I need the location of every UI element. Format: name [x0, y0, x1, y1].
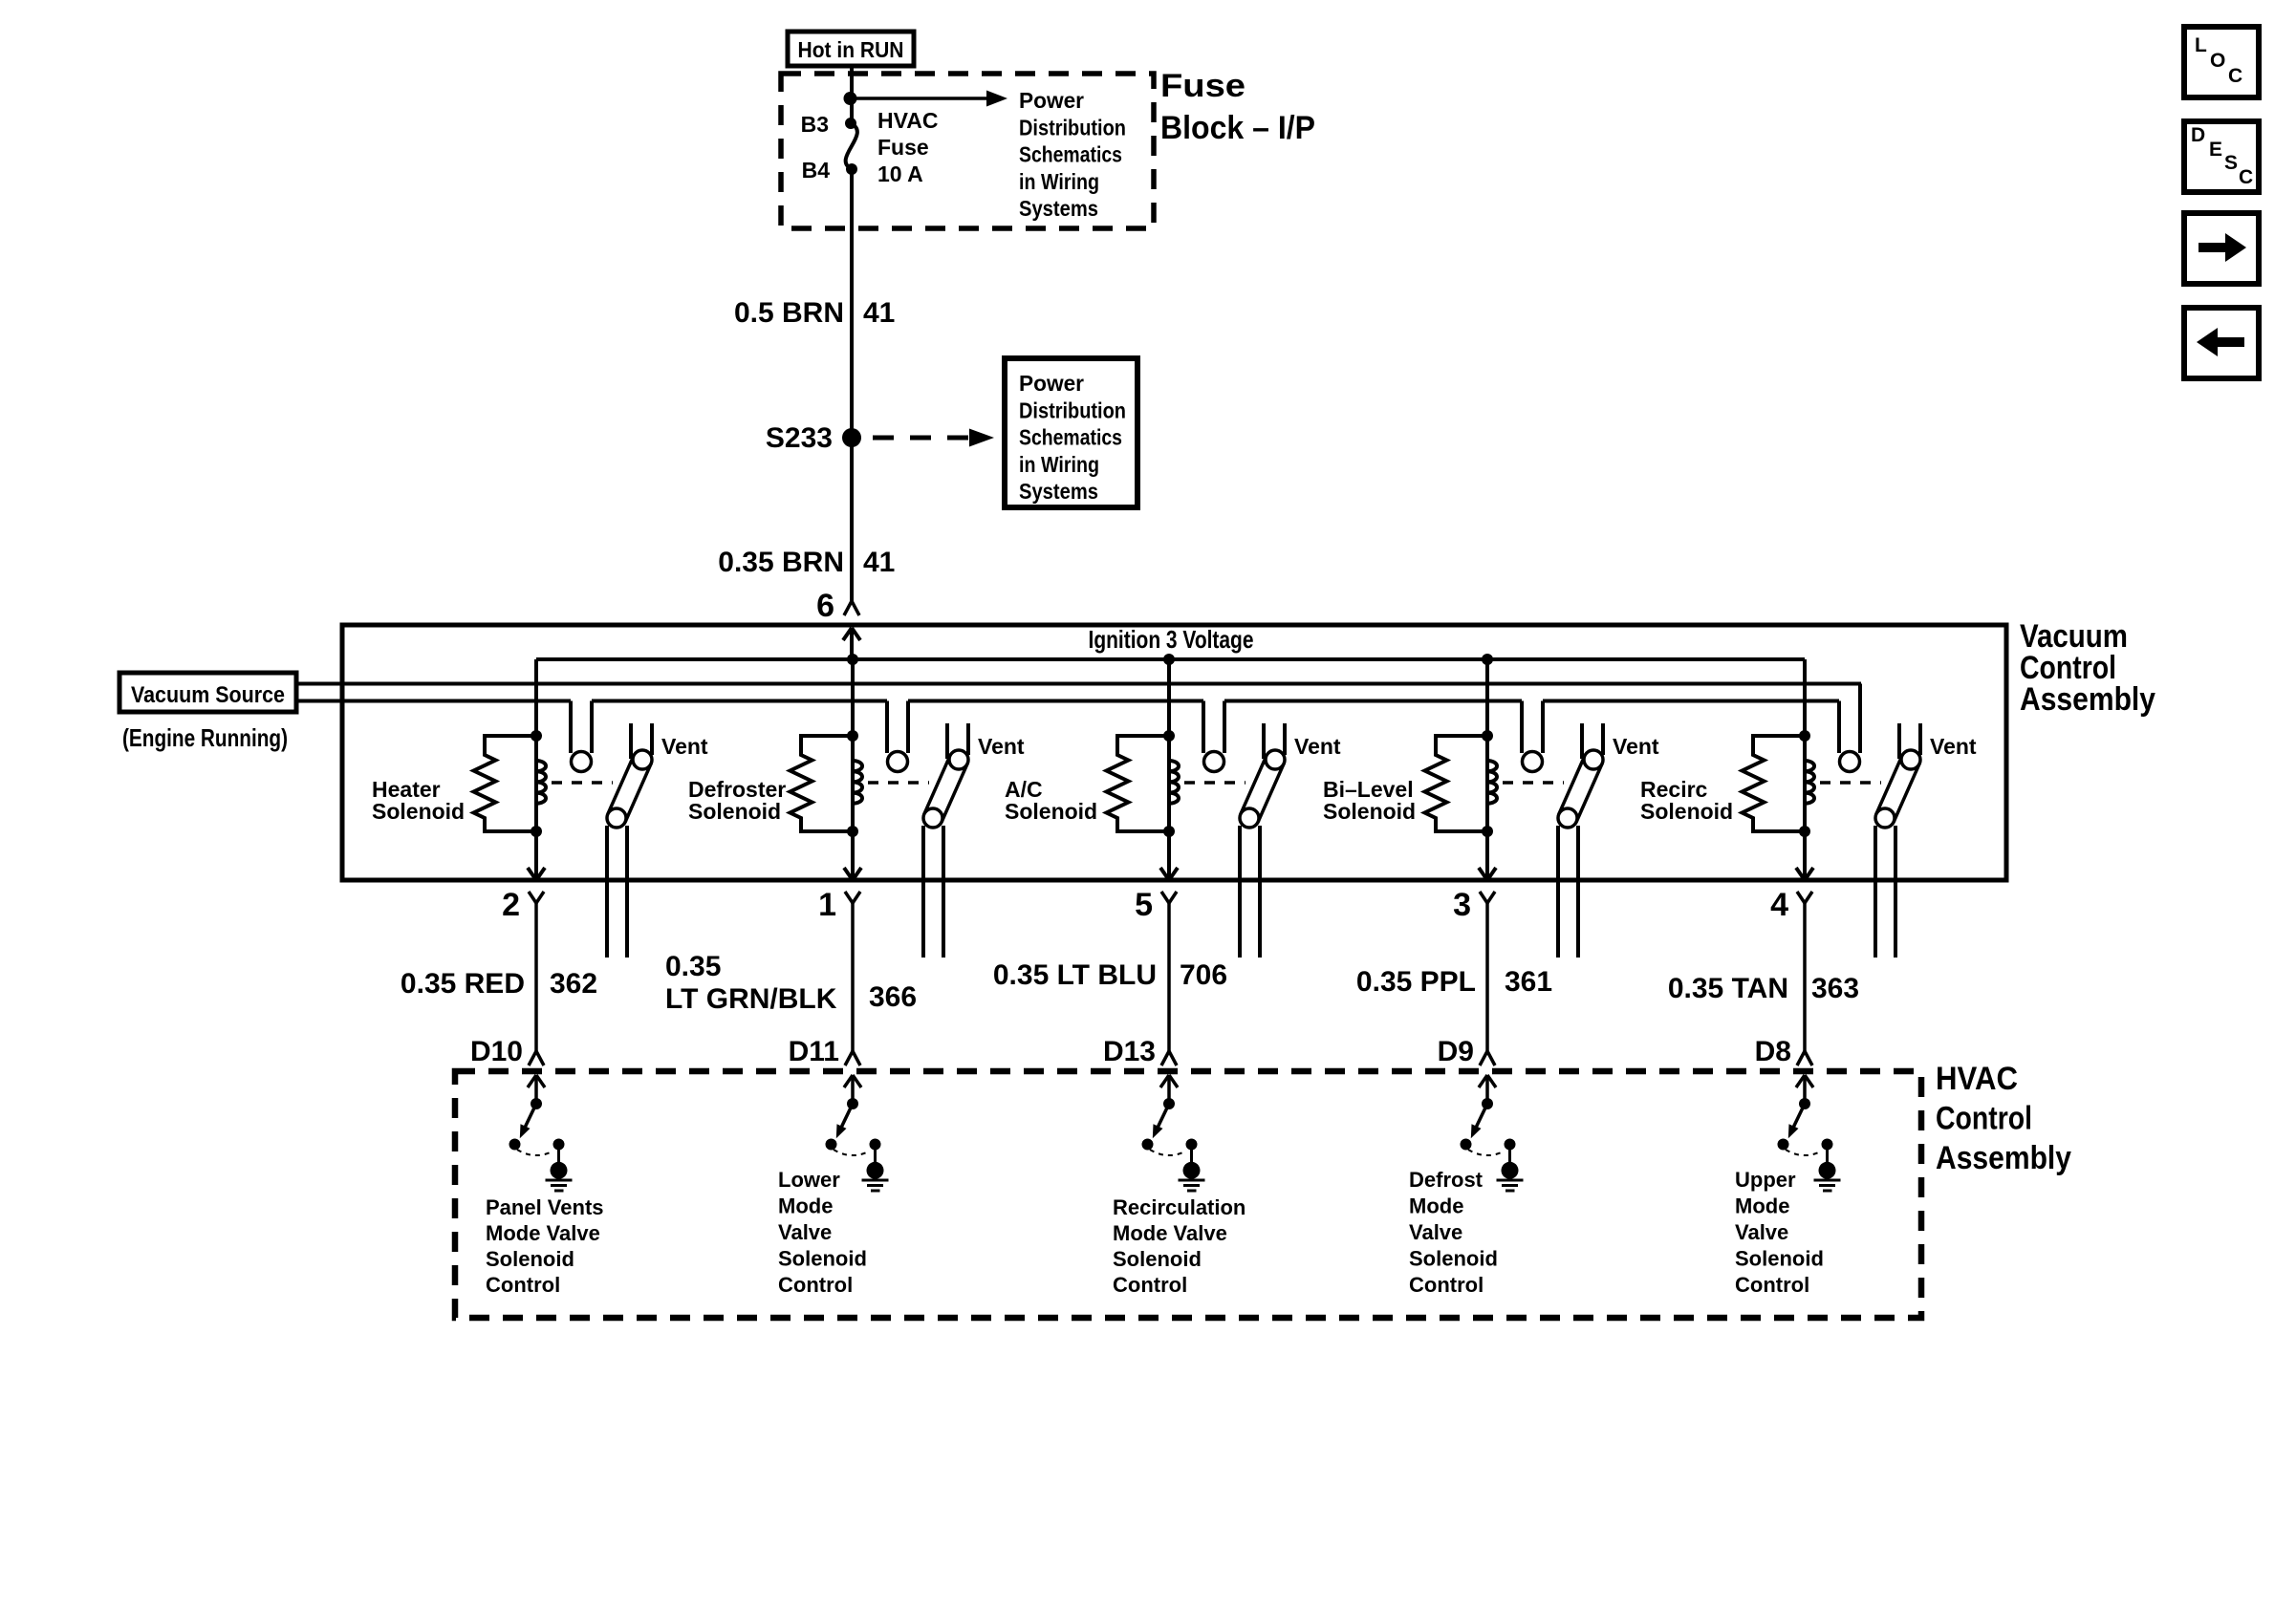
switch D9 dashed travel arc: [1468, 1150, 1504, 1155]
svg-text:Control: Control: [1735, 1273, 1809, 1297]
vacuum supply line lower comb: [296, 699, 571, 703]
svg-text:0.35 LT BLU: 0.35 LT BLU: [993, 959, 1157, 991]
Heater vent tube: [629, 723, 633, 759]
svg-text:Assembly: Assembly: [2020, 681, 2155, 718]
wire pin 3 to D9: [1485, 903, 1489, 1051]
svg-text:706: 706: [1180, 959, 1227, 991]
wire pin 1 to D11: [851, 903, 855, 1051]
wire pin 5 to D13: [1167, 903, 1171, 1051]
Bi–Level valve lower port: [1558, 808, 1577, 828]
Recirc solenoid bottom junction: [1799, 826, 1810, 837]
solenoid unit Heater Solenoid: feed wire: [534, 659, 538, 831]
svg-text:5: 5: [1135, 887, 1153, 923]
Defroster solenoid coil: [853, 736, 862, 831]
A/C vacuum port tube: [1202, 701, 1205, 754]
Bi–Level vent tube: [1580, 723, 1584, 759]
splice S233: [842, 428, 861, 447]
svg-text:HVAC: HVAC: [877, 108, 938, 133]
A/C valve lower port: [1240, 808, 1259, 828]
switch D13 ground ball: [1183, 1162, 1201, 1179]
ground symbol D11: [862, 1179, 889, 1182]
svg-text:E: E: [2209, 139, 2222, 161]
Defroster vacuum port tube: [885, 701, 889, 754]
svg-text:Mode: Mode: [1409, 1194, 1463, 1218]
wire from Hot in RUN to fuse block: [850, 66, 854, 98]
Heater solenoid resistor branch: [474, 736, 537, 831]
ground symbol D9: [1497, 1179, 1524, 1182]
switch D9 pivot: [1482, 1098, 1493, 1109]
A/C valve pivot port: [1266, 750, 1285, 769]
power label box "Hot in RUN": [788, 32, 914, 66]
svg-text:366: 366: [869, 981, 917, 1013]
svg-text:10 A: 10 A: [877, 161, 923, 186]
vacuum supply line upper: [296, 682, 1861, 686]
svg-text:Hot in RUN: Hot in RUN: [798, 37, 904, 62]
solenoid unit Recirc Solenoid: feed wire: [1803, 659, 1807, 831]
LOC nav box: [2184, 27, 2259, 97]
Bi–Level valve pivot port: [1584, 750, 1603, 769]
pin 5 connector: [1161, 892, 1169, 903]
ignition 3 voltage rail: [536, 657, 1805, 661]
switch D11 left contact: [826, 1139, 837, 1151]
switch D11 entry arrow: [851, 1075, 855, 1103]
svg-text:Defrost: Defrost: [1409, 1168, 1484, 1192]
Bi–Level solenoid top junction: [1482, 730, 1493, 742]
Heater valve lever: [608, 756, 651, 822]
svg-text:Vent: Vent: [1930, 734, 1977, 759]
Heater solenoid top junction: [531, 730, 542, 742]
switch D10 left contact: [509, 1139, 521, 1151]
svg-text:Control: Control: [1936, 1101, 2032, 1137]
junction dot rail/ac: [1163, 654, 1175, 665]
Recirc solenoid top junction: [1799, 730, 1810, 742]
next page nav box: [2184, 213, 2259, 284]
svg-text:Solenoid: Solenoid: [1113, 1247, 1202, 1271]
wire pin 4 to D8: [1803, 903, 1807, 1051]
svg-text:6: 6: [816, 588, 834, 624]
switch D9 lever: [1477, 1104, 1488, 1127]
svg-text:Mode: Mode: [778, 1194, 833, 1218]
Bi–Level solenoid coil: [1487, 736, 1497, 831]
Bi–Level output vacuum tube: [1556, 826, 1560, 958]
A/C vacuum port: [1204, 752, 1224, 772]
Defroster solenoid top junction: [847, 730, 858, 742]
ground symbol D10: [546, 1179, 573, 1182]
svg-text:O: O: [2210, 50, 2225, 72]
svg-text:362: 362: [550, 968, 597, 1000]
svg-text:Valve: Valve: [1735, 1220, 1788, 1244]
svg-text:0.35 BRN: 0.35 BRN: [718, 547, 844, 578]
svg-text:41: 41: [863, 547, 895, 578]
Bi–Level vacuum port: [1523, 752, 1543, 772]
switch D10 dashed travel arc: [517, 1150, 552, 1155]
switch D9 left contact: [1461, 1139, 1472, 1151]
pin 1 connector: [845, 892, 853, 903]
pin 3 connector: [1480, 892, 1487, 903]
switch D11 pivot: [847, 1098, 858, 1109]
Recirc actuator dashed link: [1820, 781, 1881, 785]
svg-text:Ignition 3 Voltage: Ignition 3 Voltage: [1089, 625, 1254, 654]
previous page nav box: [2184, 308, 2259, 378]
svg-text:Valve: Valve: [1409, 1220, 1462, 1244]
switch D10 ground ball: [551, 1162, 568, 1179]
svg-text:Vent: Vent: [978, 734, 1025, 759]
Recirc solenoid coil: [1805, 736, 1814, 831]
DESC nav box: [2184, 121, 2259, 192]
svg-text:Distribution: Distribution: [1019, 398, 1126, 422]
switch D9 right contact: [1505, 1139, 1516, 1151]
svg-text:B3: B3: [801, 112, 829, 137]
A/C solenoid coil: [1169, 736, 1179, 831]
switch D10 pivot: [531, 1098, 542, 1109]
switch D8 left contact: [1778, 1139, 1789, 1151]
svg-text:Systems: Systems: [1019, 479, 1098, 504]
svg-text:Mode Valve: Mode Valve: [1113, 1221, 1227, 1245]
Defroster valve lower port: [923, 808, 942, 828]
fuse block dashed box: [781, 74, 1154, 228]
svg-text:L: L: [2195, 34, 2207, 56]
svg-text:Upper: Upper: [1735, 1168, 1796, 1192]
svg-text:Fuse: Fuse: [1160, 68, 1245, 104]
svg-text:0.35 TAN: 0.35 TAN: [1668, 973, 1788, 1004]
solenoid unit Defroster Solenoid: feed wire: [851, 659, 855, 831]
A/C actuator dashed link: [1184, 781, 1245, 785]
switch D9 ground ball: [1502, 1162, 1519, 1179]
Defroster valve pivot port: [949, 750, 968, 769]
Bi–Level solenoid resistor branch: [1425, 736, 1488, 831]
svg-text:Vent: Vent: [1294, 734, 1341, 759]
Defroster output arrow to pin 1: [851, 831, 855, 880]
arrow to power distribution note (fuse block): [851, 97, 989, 100]
A/C vent tube: [1262, 723, 1266, 759]
svg-text:B4: B4: [802, 158, 831, 183]
Heater solenoid coil: [536, 736, 546, 831]
Recirc vacuum port: [1840, 752, 1860, 772]
Defroster solenoid resistor branch: [791, 736, 854, 831]
svg-text:Schematics: Schematics: [1019, 142, 1122, 167]
Heater output vacuum tube: [605, 826, 609, 958]
Recirc output vacuum tube: [1874, 826, 1877, 958]
Recirc vacuum port tube: [1837, 701, 1841, 754]
svg-text:HVAC: HVAC: [1936, 1061, 2018, 1097]
svg-text:Solenoid: Solenoid: [486, 1247, 574, 1271]
fuse terminal B4: [846, 163, 857, 175]
Bi–Level actuator dashed link: [1503, 781, 1564, 785]
Vacuum Control Assembly box: [342, 625, 2006, 880]
Bi–Level vacuum port tube: [1520, 701, 1524, 754]
svg-text:S: S: [2224, 152, 2238, 174]
switch D13 lever: [1159, 1104, 1170, 1127]
switch D11 lever: [842, 1104, 854, 1127]
Defroster vent tube: [945, 723, 949, 759]
svg-text:Solenoid: Solenoid: [778, 1247, 867, 1271]
svg-text:Systems: Systems: [1019, 196, 1098, 221]
svg-text:D: D: [2191, 124, 2205, 146]
svg-text:Schematics: Schematics: [1019, 425, 1122, 450]
Heater vacuum port tube: [569, 701, 573, 754]
A/C solenoid resistor branch: [1107, 736, 1170, 831]
svg-text:Control: Control: [486, 1273, 560, 1297]
svg-text:Vent: Vent: [1613, 734, 1659, 759]
Bi–Level solenoid bottom junction: [1482, 826, 1493, 837]
wire B4 down to S233: [850, 169, 854, 438]
Defroster valve lever: [924, 756, 967, 822]
A/C solenoid top junction: [1163, 730, 1175, 742]
svg-text:Vacuum Source: Vacuum Source: [131, 682, 285, 708]
HVAC Control Assembly dashed box: [455, 1071, 1921, 1318]
svg-text:S233: S233: [766, 422, 833, 454]
wire junction to B3: [850, 98, 854, 123]
junction dot at fuse input: [844, 92, 857, 105]
pin 4 connector: [1797, 892, 1805, 903]
svg-text:Recirculation: Recirculation: [1113, 1195, 1245, 1219]
Heater vacuum port: [572, 752, 592, 772]
Heater actuator dashed link: [552, 781, 613, 785]
Heater valve lower port: [607, 808, 626, 828]
svg-text:0.5 BRN: 0.5 BRN: [734, 297, 844, 329]
switch D10 lever: [526, 1104, 537, 1127]
A/C output vacuum tube: [1238, 826, 1242, 958]
junction dot rail/defroster: [847, 654, 858, 665]
svg-text:41: 41: [863, 297, 895, 329]
svg-text:D11: D11: [789, 1036, 839, 1067]
svg-text:D9: D9: [1438, 1036, 1474, 1067]
Recirc solenoid resistor branch: [1743, 736, 1806, 831]
switch D11 right contact: [870, 1139, 881, 1151]
A/C solenoid bottom junction: [1163, 826, 1175, 837]
svg-text:Block – I/P: Block – I/P: [1160, 110, 1315, 146]
Recirc valve lever: [1876, 756, 1919, 822]
svg-text:D10: D10: [470, 1036, 523, 1067]
A/C output arrow to pin 5: [1167, 831, 1171, 880]
svg-text:D8: D8: [1755, 1036, 1791, 1067]
svg-text:3: 3: [1453, 887, 1471, 923]
Recirc output arrow to pin 4: [1803, 831, 1807, 880]
Defroster output vacuum tube: [921, 826, 925, 958]
svg-text:Solenoid: Solenoid: [1005, 799, 1097, 824]
svg-text:Solenoid: Solenoid: [372, 799, 465, 824]
svg-text:Solenoid: Solenoid: [1409, 1247, 1498, 1271]
Recirc valve pivot port: [1901, 750, 1920, 769]
pin 2 connector: [529, 892, 536, 903]
svg-text:Distribution: Distribution: [1019, 115, 1126, 140]
svg-text:4: 4: [1770, 887, 1788, 923]
svg-text:363: 363: [1811, 973, 1859, 1004]
svg-text:Solenoid: Solenoid: [1735, 1247, 1824, 1271]
A/C valve lever: [1241, 756, 1284, 822]
svg-text:Fuse: Fuse: [877, 135, 929, 160]
switch D13 pivot: [1163, 1098, 1175, 1109]
svg-text:Mode: Mode: [1735, 1194, 1789, 1218]
svg-text:Control: Control: [1113, 1273, 1187, 1297]
svg-text:Lower: Lower: [778, 1168, 840, 1192]
wire pin 2 to D10: [534, 903, 538, 1051]
svg-text:Valve: Valve: [778, 1220, 832, 1244]
svg-text:Solenoid: Solenoid: [1323, 799, 1416, 824]
svg-text:1: 1: [818, 887, 836, 923]
svg-text:0.35 RED: 0.35 RED: [401, 968, 525, 1000]
fuse terminal B3: [845, 118, 856, 129]
switch D8 lever: [1794, 1104, 1806, 1127]
svg-text:361: 361: [1505, 966, 1552, 998]
svg-text:Power: Power: [1019, 371, 1084, 396]
switch D10 entry arrow: [534, 1075, 538, 1103]
svg-text:Solenoid: Solenoid: [688, 799, 781, 824]
Recirc vent tube: [1897, 723, 1901, 759]
dashed arrow from S233 to power distribution note: [873, 436, 971, 441]
svg-text:Control: Control: [778, 1273, 853, 1297]
pin 6 entry arrow inside assembly: [850, 628, 854, 659]
svg-text:0.35: 0.35: [665, 951, 721, 982]
switch D13 left contact: [1142, 1139, 1154, 1151]
ground symbol D13: [1179, 1179, 1205, 1182]
Heater solenoid bottom junction: [531, 826, 542, 837]
switch D10 right contact: [553, 1139, 565, 1151]
wire S233 down to vacuum control assembly pin 6: [850, 438, 854, 601]
switch D13 right contact: [1186, 1139, 1198, 1151]
Defroster actuator dashed link: [868, 781, 929, 785]
solenoid unit Bi–Level Solenoid: feed wire: [1485, 659, 1489, 831]
Heater output arrow to pin 2: [534, 831, 538, 880]
switch D8 right contact: [1822, 1139, 1833, 1151]
switch D8 entry arrow: [1803, 1075, 1807, 1103]
svg-text:LT GRN/BLK: LT GRN/BLK: [665, 983, 837, 1015]
svg-text:Vent: Vent: [661, 734, 708, 759]
svg-text:Power: Power: [1019, 88, 1084, 113]
switch D8 pivot: [1799, 1098, 1810, 1109]
svg-text:(Engine Running): (Engine Running): [122, 723, 288, 752]
svg-text:Solenoid: Solenoid: [1640, 799, 1733, 824]
switch D11 dashed travel arc: [834, 1150, 869, 1155]
svg-text:C: C: [2239, 166, 2253, 188]
svg-text:in Wiring: in Wiring: [1019, 452, 1099, 477]
Heater valve pivot port: [633, 750, 652, 769]
switch D13 dashed travel arc: [1150, 1150, 1185, 1155]
svg-text:Control: Control: [1409, 1273, 1484, 1297]
svg-text:C: C: [2228, 65, 2242, 87]
switch D8 ground ball: [1819, 1162, 1836, 1179]
switch D13 entry arrow: [1167, 1075, 1171, 1103]
Recirc valve lower port: [1875, 808, 1895, 828]
svg-text:0.35 PPL: 0.35 PPL: [1356, 966, 1476, 998]
note box: Power Distribution Schematics in Wiring Systems: [1005, 358, 1137, 507]
junction dot rail/bilevel: [1482, 654, 1493, 665]
switch D11 ground ball: [867, 1162, 884, 1179]
svg-text:D13: D13: [1103, 1036, 1156, 1067]
svg-text:Assembly: Assembly: [1936, 1140, 2071, 1176]
svg-text:2: 2: [502, 887, 520, 923]
Bi–Level valve lever: [1559, 756, 1602, 822]
switch D9 entry arrow: [1485, 1075, 1489, 1103]
Defroster vacuum port: [888, 752, 908, 772]
svg-text:Panel Vents: Panel Vents: [486, 1195, 604, 1219]
fuse F10 HVAC 10A element: [846, 123, 857, 169]
switch D8 dashed travel arc: [1786, 1150, 1821, 1155]
Vacuum Source box: [119, 673, 296, 712]
solenoid unit A/C Solenoid: feed wire: [1167, 659, 1171, 831]
svg-text:in Wiring: in Wiring: [1019, 169, 1099, 194]
ground symbol D8: [1814, 1179, 1841, 1182]
svg-text:Mode Valve: Mode Valve: [486, 1221, 600, 1245]
Defroster solenoid bottom junction: [847, 826, 858, 837]
Bi–Level output arrow to pin 3: [1485, 831, 1489, 880]
